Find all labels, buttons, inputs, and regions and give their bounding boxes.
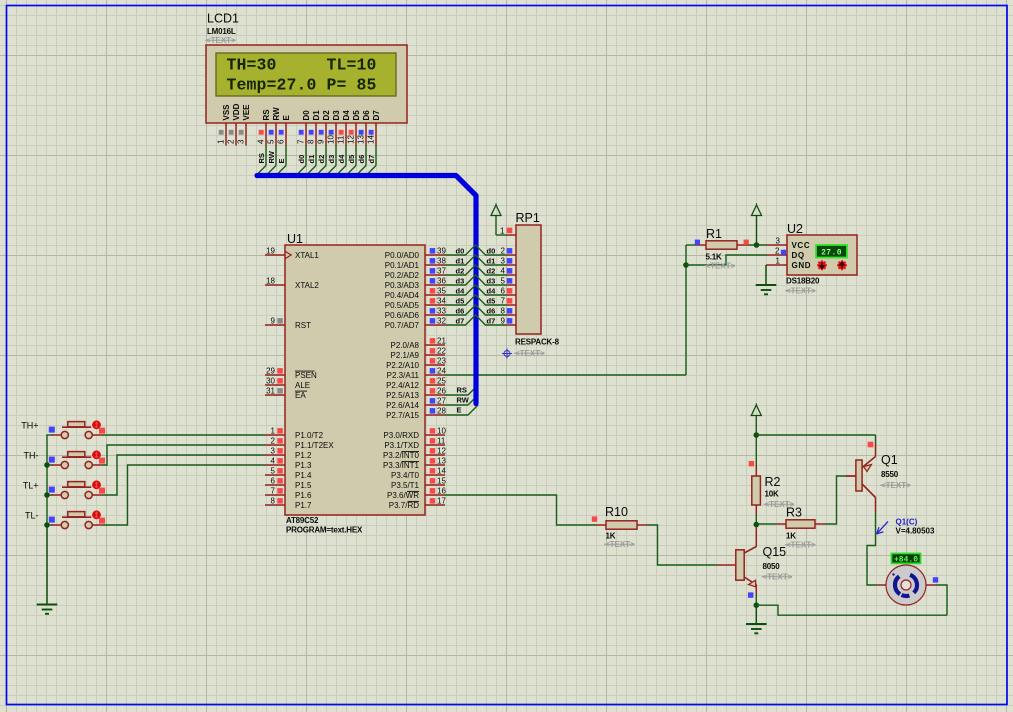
- svg-text:GND: GND: [792, 261, 812, 270]
- svg-text:5.1K: 5.1K: [706, 253, 723, 262]
- svg-text:D6: D6: [362, 110, 371, 121]
- svg-text:E: E: [457, 406, 462, 415]
- svg-text:d4: d4: [456, 287, 466, 296]
- svg-text:15: 15: [437, 477, 446, 486]
- svg-text:P2.5/A13: P2.5/A13: [386, 391, 419, 400]
- svg-text:P2.7/A15: P2.7/A15: [386, 411, 419, 420]
- svg-text:d5: d5: [456, 297, 465, 306]
- svg-text:11: 11: [437, 437, 446, 446]
- svg-text:+84.0: +84.0: [894, 556, 918, 565]
- svg-text:10: 10: [437, 427, 446, 436]
- svg-text:P3.4/T0: P3.4/T0: [391, 471, 420, 480]
- svg-text:13: 13: [357, 135, 366, 144]
- svg-text:5: 5: [501, 277, 506, 286]
- svg-text:3: 3: [501, 257, 506, 266]
- svg-text:TH-: TH-: [24, 451, 39, 461]
- svg-text:27.0: 27.0: [821, 248, 842, 257]
- svg-text:d1: d1: [487, 257, 496, 266]
- svg-text:32: 32: [437, 317, 446, 326]
- svg-text:P0.1/AD1: P0.1/AD1: [385, 261, 420, 270]
- svg-text:1K: 1K: [786, 532, 796, 541]
- svg-text:VCC: VCC: [792, 241, 811, 250]
- svg-text:D2: D2: [322, 110, 331, 121]
- svg-text:E: E: [282, 115, 291, 121]
- svg-text:P1.5: P1.5: [295, 481, 312, 490]
- svg-text:2: 2: [501, 247, 506, 256]
- svg-text:16: 16: [437, 487, 446, 496]
- svg-text:RST: RST: [295, 321, 311, 330]
- svg-text:12: 12: [347, 135, 356, 144]
- svg-text:D0: D0: [302, 110, 311, 121]
- svg-text:3: 3: [237, 139, 246, 144]
- svg-text:D7: D7: [372, 110, 381, 121]
- svg-text:d7: d7: [456, 317, 465, 326]
- svg-text:d2: d2: [456, 267, 465, 276]
- svg-text:R3: R3: [786, 506, 802, 520]
- svg-text:E: E: [277, 158, 286, 163]
- svg-text:P0.7/AD7: P0.7/AD7: [385, 321, 420, 330]
- svg-text:d0: d0: [297, 155, 306, 164]
- svg-text:1: 1: [217, 139, 226, 144]
- svg-text:TL-: TL-: [25, 511, 39, 521]
- svg-text:2: 2: [227, 139, 236, 144]
- svg-text:ALE: ALE: [295, 381, 310, 390]
- svg-text:d0: d0: [487, 247, 496, 256]
- svg-text:P1.7: P1.7: [295, 501, 312, 510]
- svg-text:U2: U2: [787, 222, 803, 236]
- svg-text:6: 6: [271, 477, 276, 486]
- svg-text:36: 36: [437, 277, 446, 286]
- svg-text:P1.6: P1.6: [295, 491, 312, 500]
- svg-text:34: 34: [437, 297, 446, 306]
- svg-text:RS: RS: [457, 386, 467, 395]
- svg-text:P0.0/AD0: P0.0/AD0: [385, 251, 420, 260]
- svg-text:TH+: TH+: [21, 421, 38, 431]
- svg-text:PSEN: PSEN: [295, 371, 317, 380]
- svg-text:5: 5: [271, 467, 276, 476]
- svg-text:13: 13: [437, 457, 446, 466]
- svg-text:5: 5: [267, 139, 276, 144]
- svg-text:d2: d2: [487, 267, 496, 276]
- svg-text:RS: RS: [257, 153, 266, 163]
- svg-text:VSS: VSS: [222, 104, 231, 121]
- svg-text:P2.4/A12: P2.4/A12: [386, 381, 419, 390]
- svg-text:18: 18: [266, 277, 275, 286]
- svg-text:21: 21: [437, 337, 446, 346]
- svg-text:d5: d5: [487, 297, 496, 306]
- svg-text:28: 28: [437, 407, 446, 416]
- svg-text:19: 19: [266, 247, 275, 256]
- svg-text:22: 22: [437, 347, 446, 356]
- svg-text:d1: d1: [307, 155, 316, 164]
- svg-text:24: 24: [437, 367, 446, 376]
- svg-text:14: 14: [367, 135, 376, 144]
- svg-text:P3.5/T1: P3.5/T1: [391, 481, 420, 490]
- svg-text:d4: d4: [487, 287, 497, 296]
- svg-text:RP1: RP1: [516, 211, 540, 225]
- svg-text:9: 9: [501, 317, 506, 326]
- svg-text:P2.6/A14: P2.6/A14: [386, 401, 419, 410]
- svg-text:d3: d3: [327, 155, 336, 164]
- svg-text:V=4.80503: V=4.80503: [896, 527, 935, 536]
- svg-text:d6: d6: [456, 307, 465, 316]
- svg-text:P1.0/T2: P1.0/T2: [295, 431, 324, 440]
- svg-text:Q1: Q1: [881, 453, 898, 467]
- svg-text:P3.7/RD: P3.7/RD: [389, 501, 419, 510]
- svg-text:6: 6: [277, 139, 286, 144]
- svg-text:Q1(C): Q1(C): [896, 518, 918, 527]
- svg-text:RS: RS: [262, 109, 271, 121]
- svg-text:PROGRAM=text.HEX: PROGRAM=text.HEX: [286, 526, 363, 535]
- svg-text:38: 38: [437, 257, 446, 266]
- svg-text:RW: RW: [457, 396, 470, 405]
- svg-text:D4: D4: [342, 110, 351, 121]
- svg-text:27: 27: [437, 397, 446, 406]
- svg-text:9: 9: [271, 317, 276, 326]
- svg-text:P3.3/INT1: P3.3/INT1: [383, 461, 420, 470]
- svg-text:33: 33: [437, 307, 446, 316]
- svg-text:9: 9: [317, 139, 326, 144]
- svg-text:2: 2: [271, 437, 276, 446]
- svg-text:P0.5/AD5: P0.5/AD5: [385, 301, 420, 310]
- svg-text:6: 6: [501, 287, 506, 296]
- svg-text:d0: d0: [456, 247, 465, 256]
- svg-text:XTAL2: XTAL2: [295, 281, 319, 290]
- svg-text:R1: R1: [706, 227, 722, 241]
- svg-text:7: 7: [297, 139, 306, 144]
- svg-text:AT89C52: AT89C52: [286, 516, 319, 525]
- svg-text:8550: 8550: [881, 470, 899, 479]
- svg-text:TL+: TL+: [23, 481, 39, 491]
- svg-text:7: 7: [501, 297, 506, 306]
- svg-text:XTAL1: XTAL1: [295, 251, 319, 260]
- svg-text:LM016L: LM016L: [207, 27, 236, 36]
- svg-text:4: 4: [271, 457, 276, 466]
- svg-text:d6: d6: [357, 155, 366, 164]
- svg-text:8: 8: [271, 497, 276, 506]
- svg-text:35: 35: [437, 287, 446, 296]
- svg-text:4: 4: [257, 139, 266, 144]
- svg-text:P3.1/TXD: P3.1/TXD: [384, 441, 419, 450]
- svg-text:d5: d5: [347, 155, 356, 164]
- svg-text:D1: D1: [312, 110, 321, 121]
- svg-text:Q15: Q15: [763, 545, 787, 559]
- svg-text:d4: d4: [337, 154, 346, 164]
- svg-text:P1.4: P1.4: [295, 471, 312, 480]
- svg-text:1: 1: [271, 427, 276, 436]
- svg-text:P0.2/AD2: P0.2/AD2: [385, 271, 420, 280]
- svg-text:17: 17: [437, 497, 446, 506]
- svg-text:1: 1: [776, 257, 781, 266]
- svg-text:P3.2/INT0: P3.2/INT0: [383, 451, 420, 460]
- svg-text:P3.0/RXD: P3.0/RXD: [383, 431, 419, 440]
- svg-text:31: 31: [266, 387, 275, 396]
- svg-text:25: 25: [437, 377, 446, 386]
- svg-text:d6: d6: [487, 307, 496, 316]
- svg-text:R2: R2: [765, 475, 781, 489]
- svg-text:P2.2/A10: P2.2/A10: [386, 361, 419, 370]
- svg-text:8: 8: [307, 139, 316, 144]
- svg-text:VDD: VDD: [232, 103, 241, 120]
- svg-text:8050: 8050: [763, 562, 781, 571]
- svg-text:d7: d7: [367, 155, 376, 164]
- svg-text:P1.3: P1.3: [295, 461, 312, 470]
- svg-text:D3: D3: [332, 110, 341, 121]
- svg-text:d2: d2: [317, 155, 326, 164]
- svg-text:d3: d3: [487, 277, 496, 286]
- svg-text:4: 4: [501, 267, 506, 276]
- svg-text:P2.0/A8: P2.0/A8: [391, 341, 420, 350]
- svg-text:P0.6/AD6: P0.6/AD6: [385, 311, 420, 320]
- svg-text:R10: R10: [605, 505, 628, 519]
- svg-text:2: 2: [775, 247, 780, 256]
- svg-text:3: 3: [776, 237, 781, 246]
- svg-text:23: 23: [437, 357, 446, 366]
- svg-text:8: 8: [501, 307, 506, 316]
- svg-text:RESPACK-8: RESPACK-8: [515, 338, 560, 347]
- svg-text:D5: D5: [352, 110, 361, 121]
- svg-text:1: 1: [500, 227, 505, 236]
- svg-text:RW: RW: [267, 150, 276, 163]
- svg-text:P1.2: P1.2: [295, 451, 312, 460]
- svg-text:TH=30 TL=10: TH=30 TL=10: [227, 56, 377, 75]
- svg-text:P2.1/A9: P2.1/A9: [391, 351, 420, 360]
- svg-text:30: 30: [266, 377, 275, 386]
- svg-text:12: 12: [437, 447, 446, 456]
- svg-text:29: 29: [266, 367, 275, 376]
- svg-text:11: 11: [337, 135, 346, 144]
- svg-text:26: 26: [437, 387, 446, 396]
- svg-text:RW: RW: [272, 107, 281, 121]
- svg-text:P0.3/AD3: P0.3/AD3: [385, 281, 420, 290]
- svg-text:DQ: DQ: [792, 251, 805, 260]
- svg-text:7: 7: [271, 487, 276, 496]
- svg-text:U1: U1: [287, 232, 303, 246]
- svg-text:P3.6/WR: P3.6/WR: [387, 491, 419, 500]
- svg-text:Temp=27.0 P= 85: Temp=27.0 P= 85: [227, 76, 377, 95]
- svg-text:37: 37: [437, 267, 446, 276]
- svg-text:39: 39: [437, 247, 446, 256]
- svg-text:P2.3/A11: P2.3/A11: [387, 371, 420, 380]
- svg-text:DS18B20: DS18B20: [786, 277, 820, 286]
- svg-text:LCD1: LCD1: [207, 12, 239, 26]
- svg-text:P1.1/T2EX: P1.1/T2EX: [295, 441, 334, 450]
- svg-text:P0.4/AD4: P0.4/AD4: [385, 291, 420, 300]
- svg-text:10K: 10K: [765, 490, 779, 499]
- svg-text:d3: d3: [456, 277, 465, 286]
- svg-text:VEE: VEE: [242, 104, 251, 121]
- svg-text:3: 3: [271, 447, 276, 456]
- svg-text:10: 10: [327, 135, 336, 144]
- svg-text:d1: d1: [456, 257, 465, 266]
- svg-text:d7: d7: [487, 317, 496, 326]
- svg-text:14: 14: [437, 467, 446, 476]
- svg-text:EA: EA: [295, 391, 306, 400]
